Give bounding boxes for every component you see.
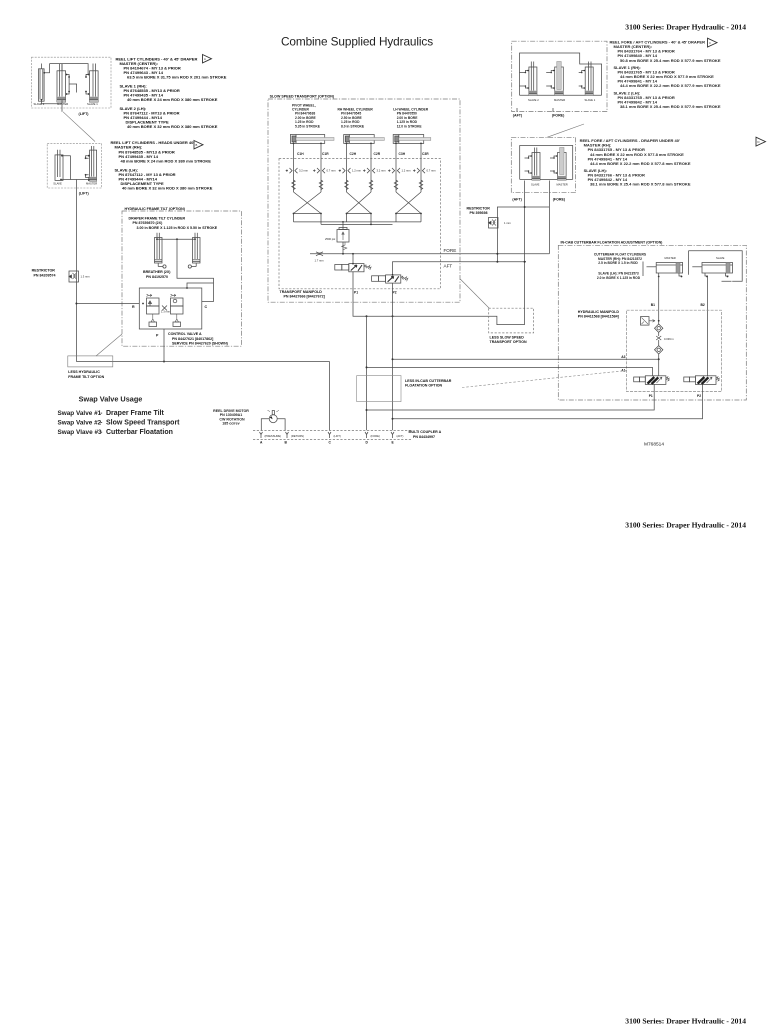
svg-text:C1R: C1R xyxy=(322,152,329,156)
cylinder SLAVE (fore/aft under 40) xyxy=(529,148,541,181)
orifices row with sizes xyxy=(286,168,425,173)
svg-text:RESTRICTOR: RESTRICTOR xyxy=(32,269,56,273)
swap valve 2 transport solenoid P1 xyxy=(335,264,371,272)
lh wheel cylinder spec text xyxy=(393,108,429,129)
svg-text:-: - xyxy=(100,420,102,427)
svg-text:MULTI COUPLER A: MULTI COUPLER A xyxy=(409,430,442,434)
float solenoid valve 2 xyxy=(684,376,720,385)
cutterbar float cylinders spec text xyxy=(594,253,647,280)
svg-text:(LIFT): (LIFT) xyxy=(79,192,90,196)
svg-text:(LIFT): (LIFT) xyxy=(334,434,341,438)
svg-text:DRAPER FRAME TILT CYLINDER: DRAPER FRAME TILT CYLINDER xyxy=(129,217,186,221)
svg-text:TRANSPORT MANIFOLD: TRANSPORT MANIFOLD xyxy=(280,290,323,294)
coupler C xyxy=(328,432,331,438)
svg-text:3100 Series: Draper Hydraulic: 3100 Series: Draper Hydraulic - 2014 xyxy=(625,521,746,530)
check valve cross network group2 xyxy=(347,192,372,214)
svg-text:FLOATATION OPTION: FLOATATION OPTION xyxy=(405,384,443,388)
svg-text:3.00 in BORE X 1.125 in ROD X: 3.00 in BORE X 1.125 in ROD X 5.50 in ST… xyxy=(137,226,218,230)
svg-text:40 mm BORE X 32 mm ROD X 380 m: 40 mm BORE X 32 mm ROD X 380 mm STROKE xyxy=(127,124,218,129)
svg-text:38.1 mm BORE X 25.4 mm ROD X 5: 38.1 mm BORE X 25.4 mm ROD X 577.8 mm ST… xyxy=(590,182,691,187)
transport manifold dashed box xyxy=(279,159,441,289)
svg-text:C: C xyxy=(205,305,208,309)
svg-text:2.5 in BORE X 1.5 in ROD: 2.5 in BORE X 1.5 in ROD xyxy=(598,261,638,265)
svg-text:FORE: FORE xyxy=(444,248,457,253)
leader dashed to in-cab manifold xyxy=(462,371,627,388)
spec text reel lift cylinders under 40 xyxy=(111,140,213,191)
cutterbar master cylinder xyxy=(647,263,683,277)
reel fore/aft cylinders box 40-45ft xyxy=(512,41,607,111)
svg-text:0.039 in: 0.039 in xyxy=(664,337,674,341)
svg-text:38.1 mm BORE X 25.4 mm ROD X 5: 38.1 mm BORE X 25.4 mm ROD X 577.9 mm ST… xyxy=(620,104,721,109)
reel drive motor symbol xyxy=(268,410,279,422)
multi coupler dashed band xyxy=(253,430,411,432)
svg-text:3100 Series: Draper Hydraulic: 3100 Series: Draper Hydraulic - 2014 xyxy=(625,23,746,32)
collector bus wires xyxy=(294,214,422,225)
wire R line xyxy=(76,303,139,305)
coupler E xyxy=(391,432,394,438)
enclosure frames xyxy=(643,251,742,281)
svg-text:-: - xyxy=(100,410,102,417)
svg-text:SLAVE: SLAVE xyxy=(716,256,725,260)
svg-text:(FORE): (FORE) xyxy=(553,197,566,201)
svg-text:40 mm BORE X 24 mm ROD X 380 m: 40 mm BORE X 24 mm ROD X 380 mm STROKE xyxy=(127,97,218,102)
wires inside box2R xyxy=(525,158,555,171)
svg-text:PN 84427666 [84427672]: PN 84427666 [84427672] xyxy=(284,295,325,299)
cylinder SLAVE 1 (fore/aft 40-45) xyxy=(582,62,594,96)
svg-text:(RETURN): (RETURN) xyxy=(291,434,304,438)
svg-text:(FORE): (FORE) xyxy=(371,434,380,438)
svg-text:0.7 mm: 0.7 mm xyxy=(427,169,437,173)
svg-text:HYDRAULIC MANIFOLD: HYDRAULIC MANIFOLD xyxy=(578,310,620,314)
wire lift line down from box2 xyxy=(75,180,77,362)
svg-text:2.0 in BORE X 1.125 in ROD: 2.0 in BORE X 1.125 in ROD xyxy=(597,276,641,280)
svg-text:50.8 mm BORE X 25.4 mm ROD X 5: 50.8 mm BORE X 25.4 mm ROD X 577.9 mm ST… xyxy=(620,58,721,63)
svg-text:C3R: C3R xyxy=(422,152,429,156)
svg-text:LESS IN-CAB CUTTERBAR: LESS IN-CAB CUTTERBAR xyxy=(405,379,452,383)
wire C line inside valve box xyxy=(187,283,214,302)
float solenoid valve 1 xyxy=(634,376,670,385)
tilt cylinder right xyxy=(188,233,200,268)
wire A3 long run xyxy=(393,358,659,360)
svg-text:12.0 in STROKE: 12.0 in STROKE xyxy=(397,124,423,128)
svg-text:40 mm BORE X 32 mm ROD X 380 m: 40 mm BORE X 32 mm ROD X 380 mm STROKE xyxy=(122,186,213,191)
reel lift cylinders box (LIFT) 40-45ft xyxy=(32,57,112,108)
cylinder SLAVE 1 (box1) xyxy=(86,64,98,103)
svg-text:1.7 mm: 1.7 mm xyxy=(315,259,325,263)
wire A1 long run xyxy=(367,366,653,368)
svg-text:PN 84411568 [84411584]: PN 84411568 [84411584] xyxy=(578,315,619,319)
svg-text:1.3 mm: 1.3 mm xyxy=(161,310,171,314)
reel fore/aft cylinders box under 40ft xyxy=(511,137,575,192)
svg-text:3.2 mm: 3.2 mm xyxy=(377,169,387,173)
svg-text:MASTER: MASTER xyxy=(557,183,568,187)
cylinder MASTER (box2) xyxy=(86,146,97,181)
leader to less box xyxy=(96,334,122,356)
svg-text:Swap Valve #2: Swap Valve #2 xyxy=(58,420,102,427)
svg-text:HYDRAULIC FRAME TILT (OPTION): HYDRAULIC FRAME TILT (OPTION) xyxy=(125,207,186,211)
svg-text:Draper Frame Tilt: Draper Frame Tilt xyxy=(106,410,165,417)
svg-text:(PRESSURE): (PRESSURE) xyxy=(265,434,282,438)
svg-text:Swap Valve #1: Swap Valve #1 xyxy=(58,410,102,417)
svg-text:Cutterbar Floatation: Cutterbar Floatation xyxy=(106,429,173,436)
coupler D xyxy=(365,432,368,438)
svg-text:CONTROL VALVE A: CONTROL VALVE A xyxy=(168,332,202,336)
wire P2 down and left xyxy=(393,384,703,418)
svg-text:-: - xyxy=(100,429,102,436)
svg-text:SERVICE PN 84427620 (SHOWN): SERVICE PN 84427620 (SHOWN) xyxy=(172,342,229,346)
svg-text:MASTER: MASTER xyxy=(86,182,97,186)
spec text reel lift cylinders 40-45 draper xyxy=(116,56,227,129)
check valve cross network group3 xyxy=(396,192,421,214)
fore line with 1.7mm orifice xyxy=(310,253,549,255)
svg-text:SLAVE 1: SLAVE 1 xyxy=(87,102,98,106)
svg-text:C1H: C1H xyxy=(297,152,304,156)
svg-text:C2H: C2H xyxy=(350,152,357,156)
spec text reel fore/aft 40-45 draper xyxy=(610,40,721,109)
cutterbar slave cylinder xyxy=(692,263,732,277)
svg-text:B: B xyxy=(196,143,198,147)
cylinder MASTER (fore/aft under 40) xyxy=(554,148,566,181)
tilt cylinder left xyxy=(155,233,167,268)
motor coupler wires xyxy=(261,419,285,431)
swap valve 1 spool left xyxy=(147,294,160,326)
svg-text:A: A xyxy=(204,57,206,61)
svg-text:TRANSPORT OPTION: TRANSPORT OPTION xyxy=(490,340,528,344)
svg-text:(AFT): (AFT) xyxy=(397,434,404,438)
svg-text:B1: B1 xyxy=(651,303,655,307)
svg-text:2500 psi: 2500 psi xyxy=(325,237,336,241)
svg-text:P2: P2 xyxy=(697,394,701,398)
inner frame box2R xyxy=(520,146,573,180)
triangle marker B xyxy=(194,141,203,149)
wires inside box1R xyxy=(519,73,581,87)
svg-text:44.4 mm BORE X 22.2 mm ROD X 5: 44.4 mm BORE X 22.2 mm ROD X 577.8 mm ST… xyxy=(590,161,691,166)
inner frame box1R xyxy=(520,53,602,95)
svg-text:C2R: C2R xyxy=(374,152,381,156)
check valve diamond 1 xyxy=(655,324,663,336)
reel lift cylinders box (LIFT) under 40ft xyxy=(47,144,101,188)
wire P down from control valve xyxy=(163,329,165,362)
aft port bypass line xyxy=(524,193,526,325)
port stubs below box1R xyxy=(517,108,553,112)
rh wheel cylinder symbol xyxy=(344,135,385,144)
svg-text:(AFT): (AFT) xyxy=(513,114,523,118)
svg-text:SLAVE: SLAVE xyxy=(531,183,540,187)
svg-text:PN 87659870 (2X): PN 87659870 (2X) xyxy=(133,221,164,225)
svg-text:SLAVE 1: SLAVE 1 xyxy=(585,98,596,102)
svg-text:0.7 mm: 0.7 mm xyxy=(327,169,337,173)
triangle marker D xyxy=(756,137,766,146)
restrictor bridge wire xyxy=(497,207,549,262)
less slow speed transport option box xyxy=(489,308,534,333)
svg-text:LESS SLOW SPEED: LESS SLOW SPEED xyxy=(490,335,525,339)
cylinder MASTER (box1) xyxy=(57,64,69,103)
swap valve 2 spool right xyxy=(171,294,184,326)
fore port wire down from box2R xyxy=(548,181,550,254)
wire B1 line xyxy=(658,277,660,325)
svg-text:SLOW SPEED TRANSPORT (OPTION): SLOW SPEED TRANSPORT (OPTION) xyxy=(270,95,335,99)
check valve springs xyxy=(292,180,423,190)
svg-text:Combine Supplied Hydraulics: Combine Supplied Hydraulics xyxy=(281,35,433,49)
svg-text:SLAVE 2: SLAVE 2 xyxy=(528,98,539,102)
svg-text:FRAME TILT OPTION: FRAME TILT OPTION xyxy=(68,375,104,379)
svg-text:PN 84209574: PN 84209574 xyxy=(34,273,56,277)
svg-text:C3H: C3H xyxy=(399,152,406,156)
wire B2 line xyxy=(707,277,709,376)
less in-cab cutterbar floatation option box xyxy=(357,376,401,402)
triangle marker A xyxy=(203,55,212,63)
svg-text:RESTRICTOR: RESTRICTOR xyxy=(467,206,491,210)
orifice 0.039in xyxy=(656,336,661,340)
svg-text:R: R xyxy=(132,305,135,309)
svg-text:BREATHER (2X): BREATHER (2X) xyxy=(143,270,171,274)
svg-text:5.35 in STROKE: 5.35 in STROKE xyxy=(295,124,321,128)
hydraulic manifold box xyxy=(627,310,722,391)
gauge port square xyxy=(641,317,656,326)
svg-text:D: D xyxy=(758,140,760,144)
svg-text:LESS HYDRAULIC: LESS HYDRAULIC xyxy=(68,370,100,374)
svg-text:B2: B2 xyxy=(701,303,705,307)
P1 wire down and jog to E line xyxy=(353,272,525,325)
reel drive motor text xyxy=(213,409,249,426)
svg-text:1 mm: 1 mm xyxy=(504,221,511,225)
swap valve 3 transport solenoid P2 xyxy=(372,275,408,283)
cylinder SLAVE 2 (fore/aft 40-45) xyxy=(525,62,537,96)
triangle marker C xyxy=(708,38,718,47)
svg-text:MASTER: MASTER xyxy=(554,98,565,102)
svg-text:3100 Series: Draper Hydraulic: 3100 Series: Draper Hydraulic - 2014 xyxy=(625,1017,746,1024)
check valve cross network group1 xyxy=(294,192,322,214)
wires inside box2 xyxy=(61,156,89,180)
svg-text:PN 84427621 [84017862]: PN 84427621 [84017862] xyxy=(172,337,213,341)
orifice between spools xyxy=(162,306,167,311)
cylinder MASTER (fore/aft 40-45) xyxy=(551,62,563,96)
svg-text:P1: P1 xyxy=(649,394,653,398)
svg-text:63.5 mm BORE X 31.75 mm ROD X: 63.5 mm BORE X 31.75 mm ROD X 201 mm STR… xyxy=(127,75,227,80)
wires inside box1 xyxy=(42,64,89,112)
svg-text:P2: P2 xyxy=(393,290,397,294)
leader diagonal to less slow speed box xyxy=(460,279,489,309)
cylinder SLAVE 2 (box1) xyxy=(39,64,45,102)
svg-text:IN-CAB CUTTERBAR FLOATATION AD: IN-CAB CUTTERBAR FLOATATION ADJUSTMENT (… xyxy=(561,241,664,245)
svg-text:(AFT): (AFT) xyxy=(512,197,522,201)
svg-text:AFT: AFT xyxy=(444,263,453,268)
svg-text:PN 84192570: PN 84192570 xyxy=(146,275,168,279)
lift wire down to coupler C xyxy=(329,362,331,431)
leader line box1R to box2R xyxy=(547,124,584,137)
svg-text:(LIFT): (LIFT) xyxy=(79,112,90,116)
wire connecting tilt cylinders xyxy=(157,239,214,301)
spec text reel fore/aft under 40 xyxy=(580,138,691,187)
rh wheel cylinder spec text xyxy=(338,108,374,129)
svg-text:Swap Valve Usage: Swap Valve Usage xyxy=(79,395,143,404)
P2 wire down through coupler E line xyxy=(392,283,394,430)
port labels C1H C1R C2H C2R C3H C3R xyxy=(297,152,429,156)
A3 junction xyxy=(658,358,660,360)
lh wheel cylinder symbol xyxy=(393,135,431,144)
svg-text:Slow Speed Transport: Slow Speed Transport xyxy=(106,420,180,427)
svg-text:1.2 mm: 1.2 mm xyxy=(402,169,412,173)
cylinder drop wires xyxy=(294,143,422,192)
leader line box1 to box2 xyxy=(63,112,95,142)
A1 corner into valve xyxy=(652,367,654,375)
pivot wheel cylinder symbol xyxy=(290,135,334,144)
coupler D wire down xyxy=(366,316,368,430)
cylinder SLAVE (box2) xyxy=(55,150,63,181)
control valve A box xyxy=(139,288,202,329)
svg-text:M768514: M768514 xyxy=(644,442,664,448)
svg-text:44.4 mm BORE X 22.2 mm ROD X 5: 44.4 mm BORE X 22.2 mm ROD X 577.9 mm ST… xyxy=(620,83,721,88)
coupler B xyxy=(286,432,289,438)
svg-text:MASTER: MASTER xyxy=(665,256,676,260)
svg-text:3.2 mm: 3.2 mm xyxy=(299,169,309,173)
relief valve 2500 psi xyxy=(337,222,349,254)
svg-text:8.0 in STROKE: 8.0 in STROKE xyxy=(341,124,365,128)
svg-text:PN 84434997: PN 84434997 xyxy=(413,435,435,439)
check valve diamond 2 xyxy=(655,340,663,376)
svg-text:SLAVE: SLAVE xyxy=(53,182,62,186)
svg-text:P1: P1 xyxy=(354,290,358,294)
less hydraulic frame tilt option box xyxy=(68,356,113,367)
aft port wire down from box2R xyxy=(524,181,526,194)
svg-text:48 mm BORE X 24 mm ROD X 380 m: 48 mm BORE X 24 mm ROD X 380 mm STROKE xyxy=(121,158,212,163)
svg-text:PN 395698: PN 395698 xyxy=(470,211,488,215)
coupler A xyxy=(260,432,263,438)
wire lift horizontal run xyxy=(76,361,329,363)
svg-text:Swap Vlave #3: Swap Vlave #3 xyxy=(58,429,102,436)
svg-text:1.3 mm: 1.3 mm xyxy=(81,275,91,279)
svg-text:A3: A3 xyxy=(621,355,625,359)
svg-text:(FORE): (FORE) xyxy=(552,114,565,118)
wire P1 down and left xyxy=(367,384,655,410)
svg-text:1.2 mm: 1.2 mm xyxy=(352,169,362,173)
pivot wheel cylinder spec text xyxy=(292,103,321,128)
svg-text:C: C xyxy=(709,41,711,45)
svg-text:185 cc/rev: 185 cc/rev xyxy=(222,422,239,426)
aft wire from valve xyxy=(393,262,527,275)
